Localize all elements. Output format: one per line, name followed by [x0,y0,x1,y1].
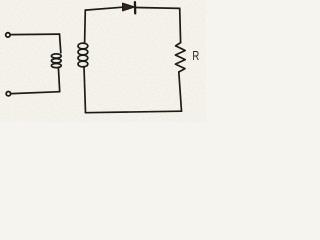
wire top left segment (secondary to diode anode) [85,7,123,10]
paper background [0,0,206,122]
resistor R zigzag [175,43,185,72]
wire T2 to primary bottom [12,92,60,94]
diode D1 triangle [123,3,135,11]
inductor L1 primary winding [51,54,61,58]
wire primary left vertical top [60,34,61,53]
terminal T2 (input bottom) [6,92,10,96]
wire secondary top vertical [84,10,87,43]
paper speckle noise [0,0,1,1]
wire primary left vertical bottom [58,68,59,92]
wire bottom (main loop) [86,111,182,113]
wire T1 to primary top [11,33,60,36]
wire top right segment (diode cathode to right corner) [136,7,180,10]
terminal T1 (input top) [6,33,10,37]
wire right vertical top [179,8,182,42]
inductor L2 secondary winding [78,43,88,49]
wire right vertical bottom [179,72,182,111]
diode D1 cathode bar [134,2,137,13]
wire secondary bottom vertical [84,67,86,113]
